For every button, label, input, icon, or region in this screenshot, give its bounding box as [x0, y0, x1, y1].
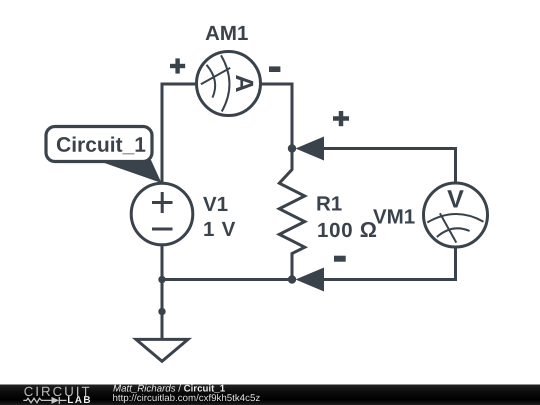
- AM1 plus sign: [170, 58, 185, 73]
- callout Circuit_1 box: [46, 127, 152, 162]
- label V1: [203, 197, 227, 211]
- VM1 + probe arrowhead at node A: [296, 137, 325, 161]
- label AM1: [206, 26, 248, 40]
- wire: bottom net from V1 junction to node B: [162, 278, 292, 281]
- footer logo schematic squiggle: [23, 397, 66, 404]
- node B junction dot: [288, 275, 296, 283]
- VM1 probe plus sign: [333, 111, 349, 126]
- junction dot at V1 bottom on bottom net: [158, 276, 165, 283]
- label R1: [317, 196, 341, 210]
- wire: VM1 + probe from arrowhead right then down to VM1 top: [324, 149, 456, 184]
- VM1 - probe arrowhead at node B: [296, 268, 325, 292]
- ground symbol: [136, 339, 188, 361]
- value label 1 V: [204, 222, 235, 236]
- footer logo CIRCUIT: [24, 387, 89, 396]
- resistor R1: [279, 149, 304, 280]
- footer logo LAB: [68, 396, 90, 403]
- junction dot on ground lead: [158, 308, 165, 315]
- VM1 probe minus sign: [334, 256, 346, 262]
- wire: V1 top terminal up and right to AM1 + terminal: [162, 84, 197, 184]
- node A junction dot: [288, 144, 296, 152]
- voltmeter VM1: [424, 183, 488, 247]
- value label 100 ohm: [318, 222, 376, 237]
- AM1 minus sign: [269, 66, 280, 72]
- callout Circuit_1 tail: [96, 160, 162, 183]
- ammeter AM1: [197, 52, 261, 116]
- callout Circuit_1 text: [57, 137, 145, 155]
- footer url line: [113, 394, 260, 403]
- label VM1: [373, 209, 415, 223]
- wire: AM1 - terminal right and down to node A: [260, 84, 292, 149]
- footer title line: [113, 385, 225, 393]
- wire: VM1 - probe from arrowhead right then down to VM1 bottom: [324, 247, 456, 280]
- wire: V1 bottom terminal down to bottom net junction: [161, 244, 164, 280]
- voltage source V1: [131, 183, 193, 245]
- wire: ground lead down from bottom net junction: [161, 280, 164, 341]
- footer bar: [0, 385, 540, 405]
